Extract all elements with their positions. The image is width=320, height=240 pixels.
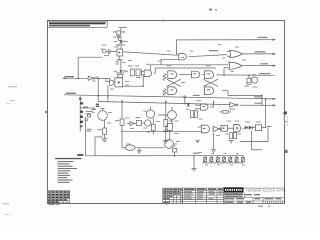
+5V label mid (92, 108, 105, 110)
transistor Q2 (108, 80, 114, 102)
resistor R13 (194, 111, 197, 118)
gate U7 (227, 50, 276, 57)
diode ladder bottom rail (202, 162, 244, 164)
stage box B2 (115, 72, 143, 87)
wire branch down x98 (97, 78, 99, 101)
bus TP2 (98, 102, 276, 107)
resistor R5 (98, 128, 107, 139)
resistor R12 (190, 111, 193, 118)
stage box B5 (136, 117, 142, 126)
frame border (48, 21, 285, 204)
notes list block (55, 158, 82, 183)
label mid wire (209, 50, 219, 51)
ground G4 (195, 140, 199, 142)
pin labels (86, 111, 95, 132)
diode D5 (187, 103, 190, 106)
bottom bus wire (85, 155, 194, 157)
bus TP1 (64, 93, 276, 100)
inverter U12 (213, 126, 222, 131)
gate U6 top (161, 54, 227, 60)
resistor R8 (164, 101, 173, 126)
ladder diode DL4 (223, 156, 226, 163)
ground G2 (163, 140, 169, 143)
transistor Q7 (144, 107, 155, 119)
-15V label (78, 154, 83, 155)
title block small text marks (163, 189, 223, 203)
wire drop x78 (77, 57, 79, 78)
cross wires FF1 (167, 79, 181, 86)
gate U10 (195, 102, 214, 110)
connector pin column (79, 96, 83, 132)
ground G3 (211, 133, 216, 153)
right margin small marks (283, 112, 287, 153)
resistor R7 (151, 118, 155, 134)
diode D1 (119, 36, 125, 45)
pullup stage Q3 (245, 74, 258, 87)
oval gate U16 (122, 145, 165, 150)
label TRIG line (260, 73, 271, 74)
marks below frame bottom right (258, 206, 263, 207)
gate U14 (234, 124, 245, 132)
emitter bar Q1 (116, 56, 126, 70)
resistor R4 zigzag (163, 89, 166, 96)
zone tick left border (45, 111, 48, 113)
margin smudge top (209, 9, 212, 11)
transistor Q8 (158, 107, 176, 124)
wire +5V branch (80, 104, 99, 108)
component box B7 (85, 115, 90, 156)
resistor R1 (113, 31, 125, 35)
gate U15 (255, 125, 266, 131)
resistor R11 (128, 65, 134, 75)
feedback loop wires (240, 128, 268, 150)
manufacturer logo block (224, 187, 244, 192)
wire node out (266, 99, 272, 128)
gate U5A (204, 71, 274, 79)
gate U3A (168, 71, 192, 79)
resistor R14 on bus (171, 146, 177, 156)
margin smudge left (8, 86, 17, 87)
title block sub rows right (225, 193, 282, 202)
gate U11 (198, 125, 214, 133)
wire feedback up (177, 39, 277, 55)
svg-text:HEADER CLOCK GATE: HEADER CLOCK GATE (247, 188, 286, 192)
gate U13 (221, 125, 234, 131)
cross wires FF2 (203, 79, 218, 86)
ladder diode DL7 (241, 156, 244, 163)
gate U2 (142, 68, 156, 76)
gate U3B (168, 87, 177, 95)
diode ladder top rail (194, 155, 244, 157)
resistor R2 small (118, 74, 123, 79)
ladder diode DL1 (204, 156, 207, 163)
inverter U1 (88, 76, 106, 80)
capacitor C1 network (101, 49, 117, 57)
input arrow CLOCK IN (62, 76, 88, 79)
resistor R9 (230, 133, 233, 139)
transistor Q5 (127, 122, 136, 126)
zone tick bottom border (166, 202, 167, 204)
base resistor box B6 (106, 78, 110, 81)
zone tick right border (284, 111, 286, 113)
wire input stub (78, 56, 102, 58)
wire y131 (122, 130, 201, 132)
zone tick top border (163, 19, 164, 21)
resistor R6 (115, 119, 124, 148)
gate U5B (204, 87, 213, 95)
transistor Q6 (142, 120, 151, 126)
tiny text below parts table (49, 204, 55, 205)
diode D2 (119, 70, 125, 74)
resistor R10 (234, 133, 237, 139)
diode D3 (245, 126, 248, 130)
stage box B4 (167, 124, 172, 140)
note box top-left (48, 21, 108, 27)
transistor Q1 label marks (115, 44, 125, 49)
gate U4 (192, 71, 205, 78)
resistor R15 horizontal (220, 111, 231, 114)
transistor Q4 (98, 108, 108, 128)
wire stub right (95, 137, 103, 156)
transistor Q1 stage box (117, 49, 123, 56)
wire x122 down (121, 102, 123, 119)
wire bus y68 (155, 67, 216, 69)
or-gate U8 (229, 62, 277, 69)
wire bus collector (123, 52, 177, 55)
label CRT wire top (258, 37, 268, 38)
resistor R3 zigzag (163, 74, 166, 81)
ground G6 (137, 148, 142, 153)
margin smudge bottom left (2, 203, 9, 204)
ladder diode DL2 (210, 156, 213, 163)
wire y95 right (222, 91, 262, 105)
ground G1 (101, 139, 107, 142)
wire into U8 (151, 59, 229, 75)
+5V rail tick (119, 27, 127, 31)
diode D4 (249, 126, 255, 130)
title block (163, 187, 285, 204)
transistor Q9 (165, 140, 177, 149)
capacitor C2 (135, 65, 142, 75)
ladder diode DL6 (235, 156, 238, 163)
capacitor C3 (164, 126, 168, 140)
junction node bus1 (184, 96, 186, 105)
ladder ground drop (191, 153, 199, 172)
component value labels (92, 41, 261, 166)
parts list table bottom-left (48, 191, 70, 203)
capacitor C4 (113, 35, 121, 41)
ladder diode DL3 (216, 156, 219, 163)
inverter U9 (229, 102, 238, 109)
ladder diode DL5 (229, 156, 232, 163)
ground G5 (229, 141, 234, 143)
junction dots (77, 74, 266, 156)
